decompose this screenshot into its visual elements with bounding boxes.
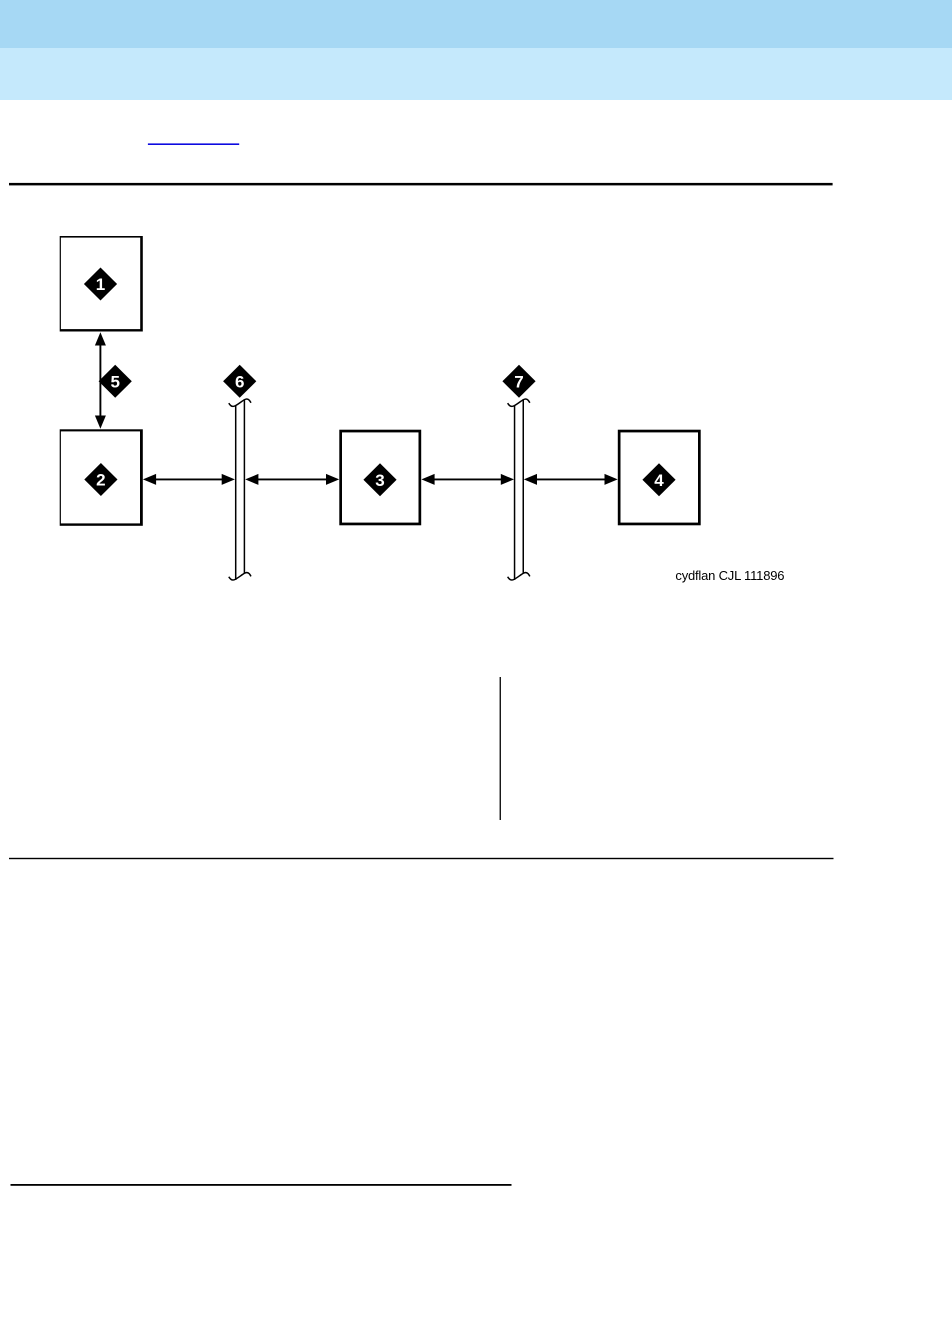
table column divider line	[500, 677, 501, 820]
box 4	[618, 430, 701, 526]
svg-text:3: 3	[375, 471, 384, 490]
diamond 4	[642, 463, 675, 496]
arrow break6 to box3	[245, 474, 339, 485]
diamond 2	[84, 463, 117, 496]
diamond 5	[99, 365, 132, 398]
svg-text:2: 2	[96, 471, 105, 490]
network break 6 (double line with tildes)	[229, 399, 251, 580]
header band dark blue	[0, 0, 952, 48]
svg-text:7: 7	[514, 372, 523, 391]
svg-text:6: 6	[235, 372, 244, 391]
diamond 1	[84, 268, 117, 301]
svg-text:cydflan CJL 111896: cydflan CJL 111896	[675, 568, 784, 583]
arrow box1 to box2	[95, 332, 106, 428]
svg-text:5: 5	[110, 372, 119, 391]
bottom horizontal rule	[11, 1184, 512, 1186]
diamond 3	[363, 463, 396, 496]
diamond 7	[502, 365, 535, 398]
svg-text:4: 4	[654, 471, 664, 490]
header band light blue	[0, 48, 952, 100]
svg-text:1: 1	[96, 275, 105, 294]
arrow break7 to box4	[524, 474, 618, 485]
box 3	[339, 430, 421, 526]
top horizontal rule	[9, 183, 833, 186]
network break 7 (double line with tildes)	[508, 399, 530, 580]
diamond 6	[223, 365, 256, 398]
box 2	[60, 429, 143, 526]
box 1	[60, 236, 143, 332]
middle horizontal rule	[9, 858, 834, 859]
arrow box3 to break7	[421, 474, 514, 485]
hyperlink underline	[148, 143, 239, 145]
arrow box2 to break6	[143, 474, 235, 485]
